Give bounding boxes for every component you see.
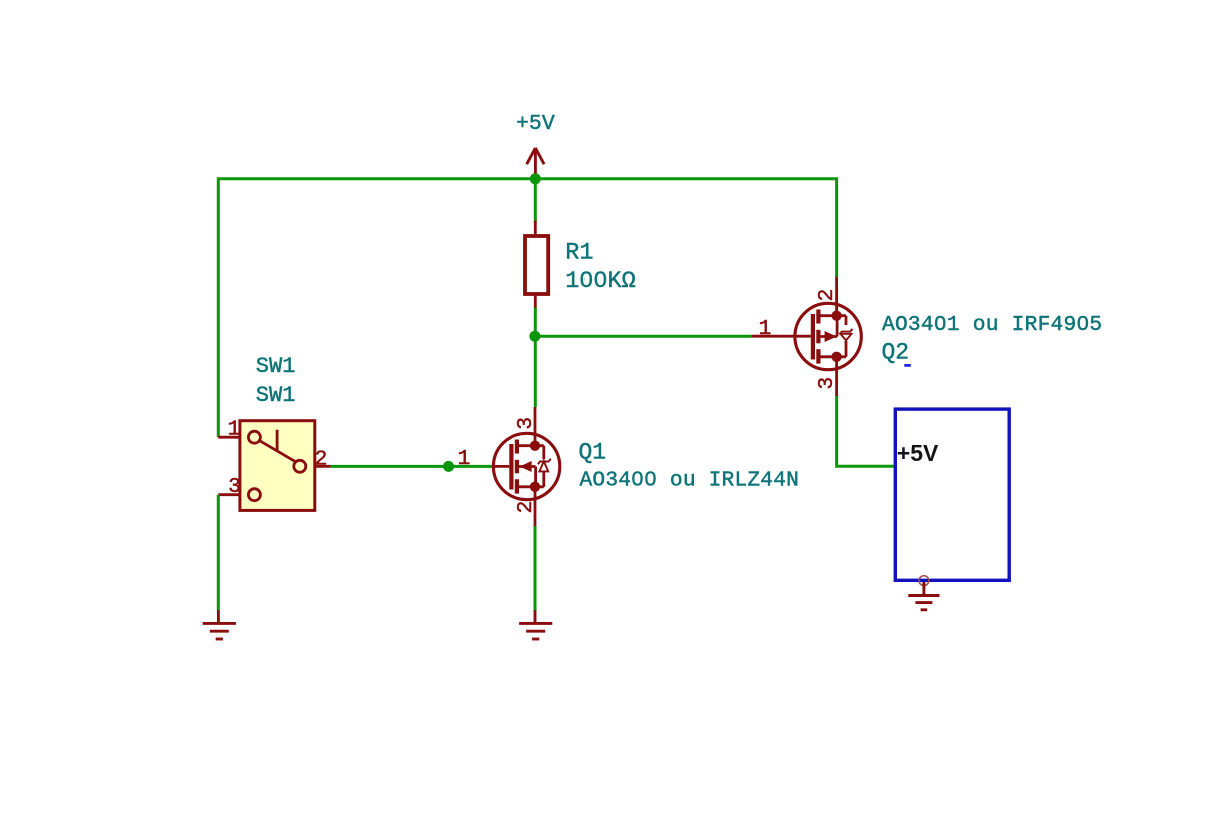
svg-text:2: 2: [315, 447, 328, 471]
ground under SW1: [203, 610, 236, 639]
svg-text:+5V: +5V: [897, 440, 939, 466]
blue tick under Q2 label: [904, 364, 911, 367]
svg-text:3: 3: [228, 475, 241, 499]
ground under Q1: [519, 610, 552, 639]
ground under load box: [908, 582, 939, 610]
power symbol +5V: [527, 148, 544, 178]
svg-text:2: 2: [514, 501, 538, 514]
junction at +5V rail: [530, 173, 541, 184]
svg-text:+5V: +5V: [516, 112, 555, 136]
svg-text:100KΩ: 100KΩ: [565, 268, 636, 295]
wire Q2 drain to load box: [837, 396, 894, 466]
transistor Q1: [492, 407, 560, 527]
wire R1 to gate node: [534, 308, 537, 407]
junction at Q1 gate pin: [443, 461, 454, 472]
wire SW1 pin2 to Q1 gate: [331, 465, 492, 468]
junction node R1/Q2 gate: [529, 331, 540, 342]
wire SW1 pin3 to ground: [217, 495, 220, 611]
svg-text:AO3400 ou IRLZ44N: AO3400 ou IRLZ44N: [580, 469, 800, 493]
svg-text:AO3401 ou IRF4905: AO3401 ou IRF4905: [882, 313, 1102, 337]
load box outline: [895, 409, 1009, 580]
resistor R1: [525, 221, 548, 309]
svg-text:SW1: SW1: [256, 354, 296, 379]
unconnected pin circle at load box ground: [919, 576, 929, 586]
wire VCC to R1: [534, 179, 537, 223]
svg-text:2: 2: [815, 289, 839, 302]
svg-text:3: 3: [514, 417, 538, 430]
wire Q1 source to ground: [534, 526, 537, 611]
svg-text:3: 3: [815, 377, 839, 390]
svg-text:Q2: Q2: [882, 340, 910, 366]
zero-dot patches: [585, 276, 1085, 481]
transistor Q2: [752, 277, 861, 397]
switch SW1: [218, 421, 330, 511]
svg-text:1: 1: [227, 417, 240, 441]
wire top rail with left and right drops: [218, 179, 836, 437]
wire junction to Q2 gate: [535, 335, 752, 338]
svg-text:R1: R1: [565, 239, 593, 266]
svg-text:Q1: Q1: [579, 440, 607, 466]
svg-text:1: 1: [458, 447, 471, 471]
svg-text:1: 1: [759, 317, 772, 341]
svg-text:SW1: SW1: [256, 383, 296, 408]
